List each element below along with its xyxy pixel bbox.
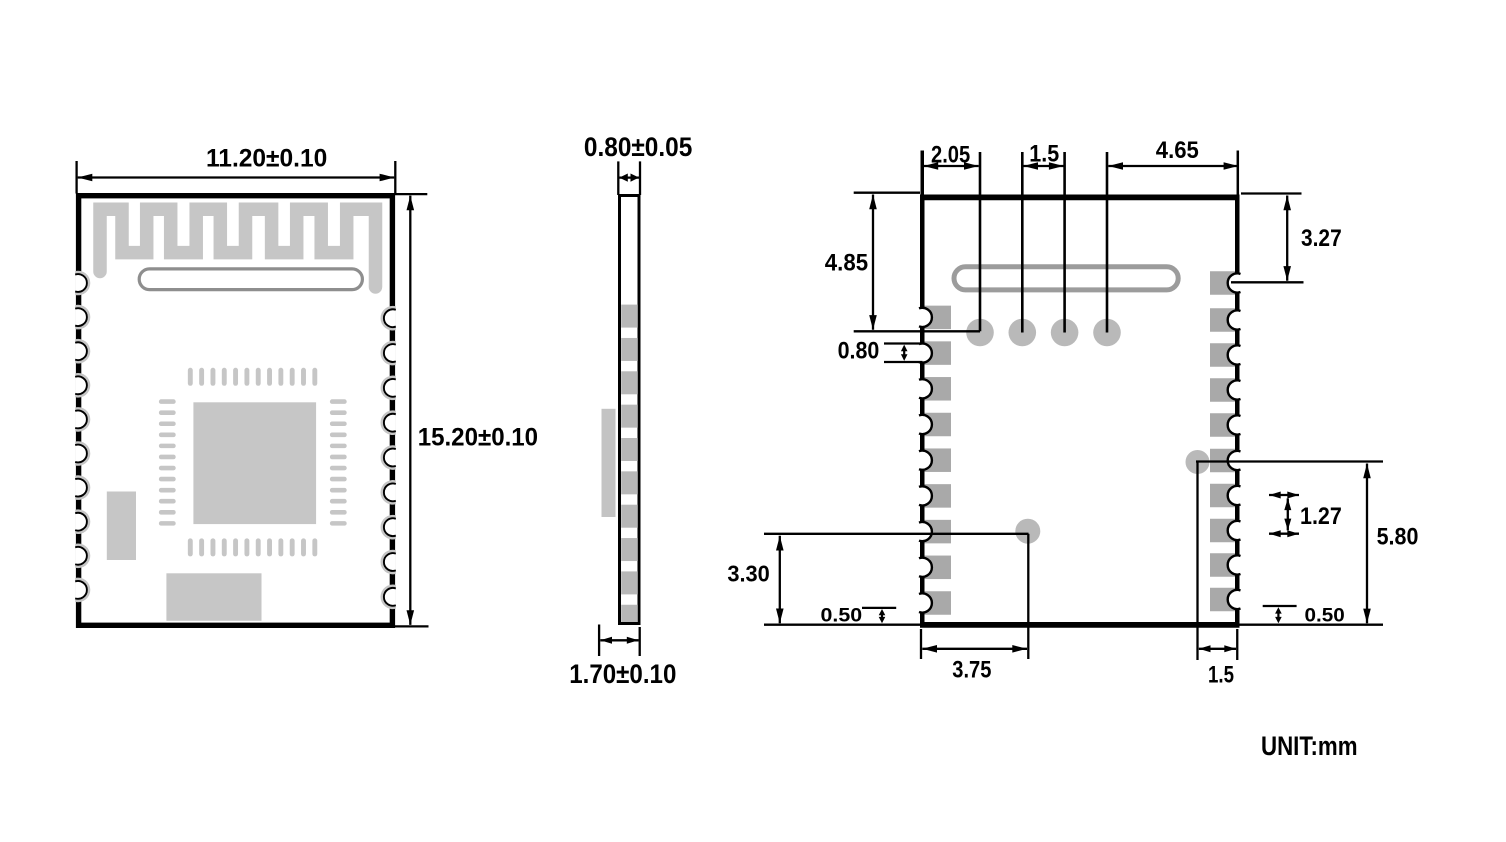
- test point TP1: [966, 319, 994, 347]
- dim 1.5 arrow line: [1023, 165, 1063, 167]
- side-view component body: [602, 409, 616, 517]
- dim 0.50 right ref line: [1263, 605, 1297, 607]
- dim 5.80 arrow line: [1366, 464, 1368, 624]
- dim 15.20 extension lines: [394, 193, 427, 195]
- svg-text:0.80: 0.80: [838, 338, 880, 365]
- bottom-view antenna slot (stadium): [954, 267, 1178, 290]
- shared ext line TP6 down: [1027, 534, 1029, 659]
- test point TP4: [1093, 319, 1121, 347]
- test point TP2: [1009, 319, 1037, 347]
- dim 1.5 bottom arrow line: [1199, 648, 1236, 650]
- svg-text:1.5: 1.5: [1208, 662, 1234, 689]
- module top-view outline: [79, 196, 393, 626]
- dim 3.27 arrow line: [1286, 196, 1288, 281]
- test point TP5: [1186, 450, 1210, 474]
- dim 0.80 ref lines: [884, 342, 923, 344]
- dim 4.85 arrow line: [872, 195, 874, 330]
- svg-text:2.05: 2.05: [931, 142, 970, 169]
- bottom baseline extension (left): [764, 624, 921, 626]
- test point TP3: [1051, 319, 1079, 347]
- bottom-view half-holes, right edge: [1228, 273, 1241, 609]
- dim 1.27 vertical arrow: [1287, 498, 1289, 530]
- dim 5.80 ref line: [1196, 460, 1383, 462]
- svg-text:4.85: 4.85: [825, 249, 868, 276]
- svg-text:11.20±0.10: 11.20±0.10: [206, 145, 327, 173]
- dim 4.65 arrow line: [1108, 165, 1238, 167]
- dim 3.30 ref line: [764, 533, 1029, 535]
- bottom-view half-holes, left edge: [919, 308, 932, 613]
- bottom-view pads, left edge: [925, 306, 952, 615]
- dim 0.50 right arrow: [1275, 607, 1282, 623]
- dim 1.27 bottom arrow: [1269, 533, 1299, 535]
- module bottom-view left border: [920, 195, 925, 625]
- ext line to TP2: [1021, 152, 1024, 333]
- module bottom-view top border: [920, 194, 1240, 200]
- dim 0.80 arrow: [901, 345, 908, 361]
- dim 2.05 arrow line: [924, 165, 979, 167]
- dim 1.5 bottom ext lines: [1196, 462, 1198, 660]
- dim 3.75 arrow line: [922, 648, 1027, 650]
- svg-text:0.80±0.05: 0.80±0.05: [584, 132, 692, 162]
- antenna keep-out slot (stadium): [139, 269, 362, 290]
- dim 0.80 extension lines: [617, 161, 619, 195]
- svg-text:UNIT:mm: UNIT:mm: [1261, 731, 1358, 761]
- dim 1.70 arrow line: [600, 639, 638, 641]
- right border extension up: [1237, 151, 1240, 195]
- component C1 (left rectangle): [107, 492, 136, 561]
- meander antenna trace: [100, 209, 376, 287]
- svg-text:3.27: 3.27: [1301, 225, 1342, 252]
- IC U1 pins: [159, 368, 347, 557]
- ext line to TP1: [979, 152, 982, 331]
- ext line to TP4: [1106, 152, 1109, 333]
- svg-text:1.5: 1.5: [1029, 140, 1059, 167]
- IC U1 body: [193, 402, 316, 524]
- svg-text:4.65: 4.65: [1156, 137, 1199, 164]
- dim 3.27 ref lines: [1241, 192, 1302, 194]
- dim 11.20 arrow line: [78, 176, 395, 178]
- dim 1.70 extension lines: [598, 625, 600, 657]
- left border extension up: [921, 151, 925, 195]
- dim 0.50 left ref line: [862, 607, 896, 609]
- side-view castellation pads: [621, 305, 638, 622]
- module bottom-view bottom border: [920, 622, 1240, 628]
- dim 15.20 arrow line: [409, 196, 411, 625]
- module side-view outline: [620, 196, 640, 624]
- svg-text:3.75: 3.75: [952, 657, 991, 684]
- dim 3.30 arrow line: [779, 536, 781, 623]
- bottom baseline extension (right): [1239, 624, 1383, 626]
- bottom-view pads, right edge: [1210, 271, 1235, 611]
- svg-text:1.27: 1.27: [1300, 503, 1342, 530]
- svg-text:5.80: 5.80: [1377, 523, 1419, 550]
- svg-text:0.50: 0.50: [1305, 606, 1345, 627]
- dim 3.75 ext line: [920, 629, 922, 659]
- dim 1.27 top arrow: [1269, 494, 1299, 496]
- castellated half-holes, left edge: [75, 271, 90, 603]
- module bottom-view right border: [1235, 195, 1240, 625]
- ext line to TP3: [1063, 152, 1066, 333]
- dim 11.20 extension lines: [75, 161, 77, 194]
- dim 4.85 ref lines: [854, 192, 920, 194]
- svg-text:0.50: 0.50: [821, 605, 863, 626]
- dim 0.50 left arrow: [879, 609, 886, 623]
- svg-text:3.30: 3.30: [727, 561, 769, 587]
- svg-text:15.20±0.10: 15.20±0.10: [418, 423, 538, 451]
- dim 0.80 arrow line: [619, 174, 639, 182]
- svg-text:1.70±0.10: 1.70±0.10: [569, 659, 676, 689]
- test point TP6: [1015, 519, 1040, 544]
- castellated half-holes, right edge: [380, 306, 395, 609]
- component C2 (bottom rectangle): [166, 573, 261, 621]
